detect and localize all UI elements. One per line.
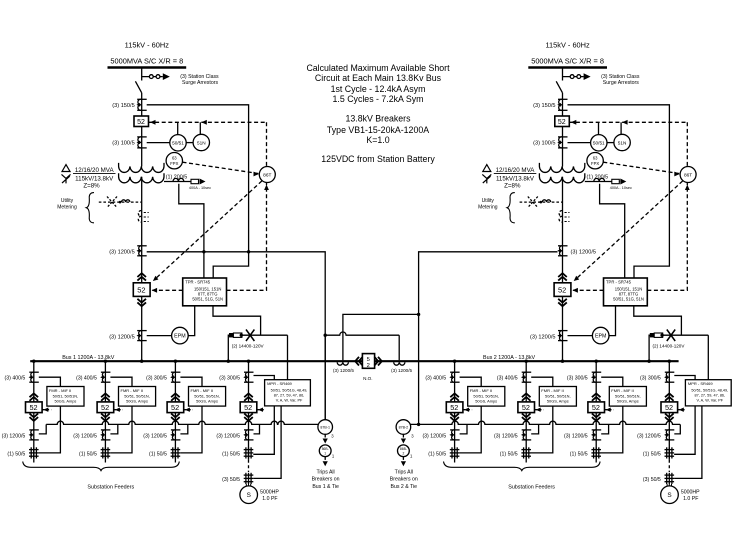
wire: CT 100/5 to relay 50/51 (bus 1 side) xyxy=(147,142,170,144)
drawout chevrons above 52 feeder F1 (bus 1) xyxy=(30,393,39,400)
svg-text:MPR - SR469: MPR - SR469 xyxy=(267,381,292,386)
CT (3) 1200/5 feeder F3 (bus 2) xyxy=(592,429,602,431)
relay 50/51 (bus 1 side) xyxy=(170,135,186,151)
dashed trip TPR to main 52 (bus 1 side) xyxy=(150,289,183,291)
svg-text:S: S xyxy=(667,492,671,499)
CT (3) 1200/5 main (bus 1 side) xyxy=(137,245,147,247)
svg-text:EPM: EPM xyxy=(174,334,185,340)
svg-text:Type VB1-15-20kA-1200A: Type VB1-15-20kA-1200A xyxy=(327,125,429,135)
label 86B-2 xyxy=(400,447,407,455)
junction dot PT (bus 2 side) xyxy=(660,334,663,337)
svg-text:(3) 400/5: (3) 400/5 xyxy=(497,376,518,382)
svg-text:Z=8%: Z=8% xyxy=(504,182,521,189)
svg-text:50/51, 51G, 51N: 50/51, 51G, 51N xyxy=(613,296,644,301)
svg-text:(2) 14400-120V: (2) 14400-120V xyxy=(653,343,686,348)
svg-text:(1) 50/5: (1) 50/5 xyxy=(79,451,97,457)
CT (1) 50/5 feeder F3 (bus 2) xyxy=(593,447,595,458)
wire: TPR to bus PT circuit (bus 2 side) xyxy=(634,306,682,335)
svg-text:(3) 100/5: (3) 100/5 xyxy=(112,140,134,146)
wire: MPR to CT 50/5 motor feeder bus 2 xyxy=(674,406,695,454)
PT fuse (bus 2 side) xyxy=(667,330,675,342)
wire: PT branch (bus 2 side) xyxy=(649,335,708,361)
trip arrow into 52 feeder F1 (bus 1) xyxy=(43,408,48,412)
trip arrow into 86T bottom (bus 1 side) xyxy=(264,185,269,191)
CT (1) 50/5 feeder F1 (bus 2) xyxy=(451,447,453,458)
wire: motor feeder vertical xyxy=(668,361,670,460)
svg-text:Metering: Metering xyxy=(57,204,77,210)
junction dot PT leg on bus 2 xyxy=(647,360,650,363)
svg-text:Substation Feeders: Substation Feeders xyxy=(87,485,134,491)
label FMR relay functions feeder F1 (bus 1) xyxy=(49,388,78,403)
breaker 52 motor feeder bus 2 xyxy=(661,402,678,413)
wire: FMR to ground CT feeder F3 (bus 2) xyxy=(601,406,623,453)
svg-text:5000HP: 5000HP xyxy=(260,489,279,495)
junction dot feeder F1 (bus 2) on bus xyxy=(453,360,456,363)
neutral resistor box (bus 2 side) xyxy=(612,179,620,183)
svg-text:(1) 50/5: (1) 50/5 xyxy=(428,451,446,457)
CT (3) 300/5 feeder F3 (bus 2) xyxy=(592,371,602,373)
svg-text:MPR - SR469: MPR - SR469 xyxy=(688,381,713,386)
relay FMR MIF II box feeder F3 (bus 2) xyxy=(609,387,646,407)
label Station Class Surge Arrestors (bus 2 side) xyxy=(601,74,640,86)
dashed wire 63 FPX to 86T (bus 2 side) xyxy=(603,162,680,173)
arrow 87B-1 to 86B-1 xyxy=(324,434,326,437)
CT (3) 400/5 feeder F1 (bus 1) xyxy=(29,371,39,373)
svg-text:(3) 300/5: (3) 300/5 xyxy=(219,376,240,382)
metering meter symbol (bus 1 side) xyxy=(122,200,130,202)
trip arrow into 86T bottom (bus 2 side) xyxy=(685,185,690,191)
svg-text:12/16/20 MVA: 12/16/20 MVA xyxy=(75,167,115,174)
svg-text:Utility: Utility xyxy=(482,198,495,204)
utility source bus bar (bus 2 side) xyxy=(528,66,607,68)
svg-text:50GS, Amps: 50GS, Amps xyxy=(54,398,76,403)
wire: 13.8kV main vertical (bus 2 side) xyxy=(562,177,564,361)
drawout chevrons left of tie 52 xyxy=(355,357,362,366)
svg-text:87B-2: 87B-2 xyxy=(399,426,409,430)
svg-text:(3) Station Class: (3) Station Class xyxy=(180,74,219,80)
drawout chevrons above main 52 (bus 2 side) xyxy=(558,273,567,280)
trip arrow into main 52 side (bus 2 side) xyxy=(572,288,578,293)
wire: motor leads bus 1 xyxy=(246,484,250,486)
label FMR relay functions feeder F3 (bus 2) xyxy=(611,388,640,403)
svg-text:K=1.0: K=1.0 xyxy=(366,135,389,145)
svg-text:(3) 50/5: (3) 50/5 xyxy=(222,477,240,483)
lockout relay 86B-2 circle xyxy=(398,445,410,457)
wire: transformer neutral CT branch (bus 1 side) xyxy=(164,181,199,183)
svg-text:(3) 400/5: (3) 400/5 xyxy=(5,376,26,382)
CT (3) 1200/5 main (bus 2 side) xyxy=(558,245,568,247)
wire: motor leads bus 2 xyxy=(667,484,671,486)
svg-text:86T: 86T xyxy=(684,172,692,178)
trip arrow into 52 115kV (bus 1 side) xyxy=(150,120,156,125)
dashed trip 86T to main 52 diagonal (bus 1 side) xyxy=(155,181,262,279)
svg-text:(3) 1200/5: (3) 1200/5 xyxy=(2,433,26,439)
CT (1) 50/5 feeder F2 (bus 2) xyxy=(523,447,525,458)
wire: FMR to ground CT feeder F2 (bus 1) xyxy=(110,406,132,453)
main secondary breaker 52 (bus 1 side) xyxy=(133,283,150,297)
svg-text:(3) 1200/5: (3) 1200/5 xyxy=(109,334,135,340)
wire: surge arrester tap (bus 1 side) xyxy=(142,76,163,78)
drawout chevrons above 52 motor feeder bus 1 xyxy=(244,393,253,400)
wire: MPR to CT (3)50/5 motor feeder bus 2 xyxy=(674,406,702,479)
wire: surge arrester tap (bus 2 side) xyxy=(563,76,584,78)
CT (3) 300/5 motor feeder bus 1 xyxy=(244,371,254,373)
wire: CT (3) 300/5 secondary to FMR feeder F3 (bus 2) xyxy=(601,377,623,386)
svg-text:(2) 14400-120V: (2) 14400-120V xyxy=(232,343,265,348)
trip arrow into main 52 top (bus 2 side) xyxy=(574,276,580,281)
svg-text:50GS, Amps: 50GS, Amps xyxy=(617,398,639,403)
dashed cable run motor feeder bus 1 xyxy=(248,460,250,472)
dashed trip TPR to 86T (bus 1 side) xyxy=(227,183,267,291)
svg-text:87, 27, 59, 47, 86,: 87, 27, 59, 47, 86, xyxy=(694,394,725,398)
wire: CT (3) 400/5 secondary to FMR feeder F2 (bus 1) xyxy=(110,377,132,386)
delta winding symbol (bus 2 side) xyxy=(483,165,491,172)
svg-text:52: 52 xyxy=(558,119,566,126)
wire: source drop (bus 2 side) xyxy=(562,68,564,81)
utility source bus bar (bus 1 side) xyxy=(108,66,187,68)
surge arrester drawout stabs (bus 1 side) xyxy=(149,75,160,79)
breaker 52 115kV (bus 1 side) xyxy=(134,116,149,127)
CT (1) 50/5 feeder F3 (bus 1) xyxy=(172,447,174,458)
CT (1) 50/5 motor feeder bus 2 xyxy=(666,447,668,458)
breaker 52 feeder F3 (bus 2) xyxy=(588,402,605,413)
svg-text:V, A, W, Var, PF: V, A, W, Var, PF xyxy=(276,399,303,403)
wire: CT 1200/5 secondary to 87B-2 (bus 2 side) xyxy=(419,252,558,425)
label FMR relay functions feeder F2 (bus 2) xyxy=(541,388,570,403)
relay 51N (bus 2 side) xyxy=(614,134,630,150)
wire: CT 1200/5 riser to 87B wire feeder F1 (bus 1) xyxy=(39,424,46,434)
trip arrow into 52 115kV (bus 2 side) xyxy=(571,120,577,125)
label TPR relay functions (bus 2 side) xyxy=(606,280,644,302)
svg-text:(3) 1200/5: (3) 1200/5 xyxy=(216,433,240,439)
wire: CT 300/5 secondary to MPR bus 1 xyxy=(254,376,275,380)
wire: source drop (bus 1 side) xyxy=(141,68,143,81)
label Utility Metering (bus 2 side) xyxy=(478,198,498,210)
wire: TPR to bus PT circuit (bus 1 side) xyxy=(213,306,261,335)
CT (3) 100/5 (bus 2 side) xyxy=(558,136,568,138)
utility metering brace (bus 1 side) xyxy=(86,193,94,223)
wire: CT 300/5 secondary to MPR bus 2 xyxy=(674,376,695,380)
dashed trip FMR to 52 feeder F1 (bus 2) xyxy=(463,409,472,411)
junction dot TPR wire B (bus 1) xyxy=(247,250,250,253)
CT (3) 300/5 feeder F3 (bus 1) xyxy=(171,371,181,373)
relay MPR SR469 box bus 1 xyxy=(265,380,311,406)
svg-text:Surge Arrestors: Surge Arrestors xyxy=(603,80,639,86)
relay 50/51 (bus 2 side) xyxy=(591,135,607,151)
breaker 52 feeder F1 (bus 2) xyxy=(446,402,463,413)
CT (3) 1200/5 motor feeder bus 2 xyxy=(665,429,675,431)
wire: CT (3) 400/5 secondary to FMR feeder F1 (bus 2) xyxy=(460,377,482,386)
CT (3) 400/5 feeder F1 (bus 2) xyxy=(450,371,460,373)
svg-text:(3) 1200/5: (3) 1200/5 xyxy=(571,250,597,256)
svg-text:87, 27, 59, 47, 86,: 87, 27, 59, 47, 86, xyxy=(274,394,305,398)
svg-text:2: 2 xyxy=(367,363,370,369)
CT (3) 150/5 (bus 2 side) xyxy=(558,98,568,100)
tie breaker 52 box xyxy=(362,354,374,369)
CT (3) 1200/5 feeder F2 (bus 2) xyxy=(522,429,532,431)
junction dot TPR wire A (bus 1) xyxy=(202,250,205,253)
wire: CT (3) 400/5 secondary to FMR feeder F2 (bus 2) xyxy=(531,377,553,386)
svg-text:FPX: FPX xyxy=(591,161,599,166)
wire: relay 50/51 to 51N (bus 1 side) xyxy=(186,142,193,144)
svg-text:(3) 1200/5: (3) 1200/5 xyxy=(637,433,661,439)
arrow 86B-1 trip xyxy=(324,457,326,460)
junction dot main on bus 2 xyxy=(561,360,564,363)
relay TPR SR745 box (bus 1 side) xyxy=(183,278,227,306)
drawout chevrons right of tie 52 xyxy=(374,357,381,366)
svg-text:52: 52 xyxy=(171,403,179,412)
svg-text:Substation Feeders: Substation Feeders xyxy=(508,485,555,491)
wire: PT right leg to MPR relay (bus 2 side) xyxy=(707,335,709,380)
surge arrester drawout stabs (bus 2 side) xyxy=(570,75,581,79)
svg-text:(3) 1200/5: (3) 1200/5 xyxy=(109,250,135,256)
lockout relay 86T (bus 1 side) xyxy=(259,167,275,183)
label Utility Metering (bus 1 side) xyxy=(57,198,77,210)
svg-text:(3) 300/5: (3) 300/5 xyxy=(640,376,661,382)
PT drawout symbol (bus 1 side) xyxy=(229,333,233,337)
CT (1) 200/5 (bus 1 side) xyxy=(173,178,184,181)
svg-text:N.O.: N.O. xyxy=(363,376,372,381)
label 52 tie breaker xyxy=(367,357,370,369)
label transformer rating (bus 2 side) xyxy=(494,167,537,189)
trip arrow into 52 feeder F2 (bus 2) xyxy=(536,408,541,412)
transformer T2 primary winding xyxy=(539,163,584,173)
label Trips All Breakers bus 2 xyxy=(390,469,418,489)
relay FMR MIF II box feeder F2 (bus 2) xyxy=(539,387,576,407)
CT (3) 150/5 (bus 1 side) xyxy=(137,98,147,100)
metering meter symbol (bus 2 side) xyxy=(542,200,550,202)
metering PT fuse X (bus 1 side) xyxy=(107,197,117,208)
label FMR relay functions feeder F3 (bus 1) xyxy=(191,388,220,403)
svg-text:EPM: EPM xyxy=(595,334,606,340)
drawout chevrons above 52 feeder F1 (bus 2) xyxy=(450,393,459,400)
wire: CT 1200/5 riser to 87B wire feeder F2 (bus 1) xyxy=(110,424,117,434)
wire: MPR to CT (3)50/5 motor feeder bus 1 xyxy=(253,406,281,479)
svg-text:87B-1: 87B-1 xyxy=(320,426,330,430)
svg-text:50/51, 50/51G, 48,49,: 50/51, 50/51G, 48,49, xyxy=(691,389,728,393)
drawout chevrons above 52 motor feeder bus 2 xyxy=(665,393,674,400)
svg-text:(3) 400/5: (3) 400/5 xyxy=(76,376,97,382)
drawout chevrons below 52 feeder F1 (bus 2) xyxy=(450,414,459,421)
dashed trip wire 52-115kV to 86T (bus 1 side) xyxy=(149,121,267,123)
wire: CT 1200/5 riser to 87B wire feeder F1 (bus 2) xyxy=(460,424,467,434)
svg-text:52: 52 xyxy=(522,403,530,412)
label FMR relay functions feeder F2 (bus 1) xyxy=(121,388,150,403)
drawout chevrons below 52 feeder F3 (bus 2) xyxy=(592,414,601,421)
trip arrow mid (bus 1 side) xyxy=(201,120,207,125)
trip arrow into main 52 top (bus 1 side) xyxy=(153,276,159,281)
bus 1 13.8kV bar xyxy=(30,360,362,362)
wire: CT 100/5 to relay 50/51 (bus 2 side) xyxy=(568,142,591,144)
dashed trip wire 52-115kV to 86T (bus 2 side) xyxy=(569,121,687,123)
svg-text:(1) 50/5: (1) 50/5 xyxy=(7,451,25,457)
CT (3) 50/5 motor feeder bus 1 xyxy=(245,473,247,484)
svg-text:(3) 400/5: (3) 400/5 xyxy=(425,376,446,382)
label Trips All Breakers bus 1 xyxy=(312,469,340,489)
meter EPM (bus 1 side) xyxy=(172,327,189,344)
trip arrow into 86T from FPX (bus 1 side) xyxy=(254,172,260,177)
svg-text:Circuit at Each Main 13.8Kv Bu: Circuit at Each Main 13.8Kv Bus xyxy=(315,73,442,83)
svg-text:(1) 50/5: (1) 50/5 xyxy=(570,451,588,457)
svg-text:(1) 50/5: (1) 50/5 xyxy=(222,451,240,457)
wire: FMR to ground CT feeder F2 (bus 2) xyxy=(531,406,553,453)
drawout chevrons below 52 feeder F3 (bus 1) xyxy=(171,414,180,421)
svg-text:Trips All: Trips All xyxy=(395,469,413,475)
svg-text:12/16/20 MVA: 12/16/20 MVA xyxy=(496,167,536,174)
label motor rating bus 2 xyxy=(681,489,700,502)
svg-text:50/51, 50/51G, 48,49,: 50/51, 50/51G, 48,49, xyxy=(271,389,308,393)
CT (1) 200/5 (bus 2 side) xyxy=(594,178,605,181)
svg-text:1st Cycle - 12.4kA Asym: 1st Cycle - 12.4kA Asym xyxy=(331,84,426,94)
CT (3) 1200/5 metering (bus 2 side) xyxy=(558,330,568,332)
svg-text:51N: 51N xyxy=(618,140,627,145)
junction dot PT leg on bus 1 xyxy=(227,360,230,363)
svg-text:50/51: 50/51 xyxy=(593,141,605,146)
svg-text:(3) 1200/5: (3) 1200/5 xyxy=(143,433,167,439)
CT (3) 1200/5 motor feeder bus 1 xyxy=(244,429,254,431)
svg-text:(3) 1200/5: (3) 1200/5 xyxy=(333,368,354,373)
CT (1) 50/5 feeder F2 (bus 1) xyxy=(102,447,104,458)
svg-text:(3) 150/5: (3) 150/5 xyxy=(533,103,555,109)
CT (1) 50/5 feeder F1 (bus 1) xyxy=(30,447,32,458)
wire: motor feeder vertical xyxy=(248,361,250,460)
label 86B-1 xyxy=(322,447,329,455)
drawout chevrons below main 52 (bus 2 side) xyxy=(558,299,567,306)
wire: CT 150/5 secondary to TPR relay (bus 1 side) xyxy=(147,105,249,278)
substation feeders brace bus 1 xyxy=(23,462,180,471)
transformer T2 secondary winding xyxy=(539,173,584,183)
svg-text:52: 52 xyxy=(137,286,145,295)
svg-text:115kV - 60Hz: 115kV - 60Hz xyxy=(545,41,590,50)
svg-text:5: 5 xyxy=(367,357,370,363)
wire: relay 51N stub up (bus 2 side) xyxy=(620,122,622,134)
svg-text:TPR - SR745: TPR - SR745 xyxy=(606,280,632,285)
relay 51N (bus 1 side) xyxy=(193,134,209,150)
wire: CT 200/5 secondary to TPR (bus 1 side) xyxy=(179,184,204,278)
dashed trip FMR to 52 feeder F2 (bus 1) xyxy=(114,409,123,411)
svg-text:(3) 100/5: (3) 100/5 xyxy=(533,140,555,146)
trip arrow into 52 feeder F3 (bus 2) xyxy=(606,408,611,412)
wire: 13.8kV main vertical (bus 1 side) xyxy=(141,177,143,361)
label MPR relay functions bus 1 xyxy=(267,381,307,402)
disconnect switch (bus 1 side) xyxy=(135,81,141,93)
svg-text:50GS, Amps: 50GS, Amps xyxy=(475,398,497,403)
drawout chevrons above 52 feeder F2 (bus 1) xyxy=(101,393,110,400)
relay 87B-1 circle xyxy=(318,420,333,435)
arrow 400A-10sec (bus 2 side) xyxy=(620,179,626,185)
svg-text:(3) 150/5: (3) 150/5 xyxy=(112,103,134,109)
svg-text:Trips All: Trips All xyxy=(316,469,334,475)
wire: CT 1200/5 riser to 87B wire motor feeder bus 2 xyxy=(674,424,680,434)
CT (3) 1200/5 feeder F1 (bus 2) xyxy=(450,429,460,431)
trip arrow into 52 motor feeder bus 2 xyxy=(679,408,684,412)
svg-text:52: 52 xyxy=(558,286,566,295)
surge arrester symbol arrow (bus 1 side) xyxy=(163,73,170,80)
label TPR relay functions (bus 1 side) xyxy=(185,280,223,302)
trip arrow into 52 feeder F3 (bus 1) xyxy=(185,408,190,412)
label Station Class Surge Arrestors (bus 1 side) xyxy=(180,74,219,86)
CT (3) 100/5 (bus 1 side) xyxy=(137,136,147,138)
junction dot motor feeder bus 2 xyxy=(668,360,671,363)
junction dot feeder F3 (bus 2) on bus xyxy=(595,360,598,363)
svg-text:TPR - SR745: TPR - SR745 xyxy=(185,280,211,285)
transformer T1 secondary winding xyxy=(119,173,164,183)
lockout wire 87B-1 top xyxy=(324,335,326,420)
svg-text:5000MVA S/C X/R = 8: 5000MVA S/C X/R = 8 xyxy=(110,57,183,66)
svg-text:52: 52 xyxy=(592,403,600,412)
svg-text:1.0 PF: 1.0 PF xyxy=(683,496,698,502)
junction dot feeder F1 (bus 1) on bus xyxy=(32,360,35,363)
wire: CT (3) 300/5 secondary to FMR feeder F3 (bus 1) xyxy=(180,377,202,386)
svg-text:(3) 1200/5: (3) 1200/5 xyxy=(530,334,556,340)
svg-text:Bus 2 & Tie: Bus 2 & Tie xyxy=(391,484,418,490)
svg-text:50GS, Amps: 50GS, Amps xyxy=(126,398,148,403)
junction dot main on bus 1 xyxy=(140,360,143,363)
label 63 FPX (bus 1 side) xyxy=(170,156,178,166)
label MPR relay functions bus 2 xyxy=(688,381,728,402)
relay FMR MIF II box feeder F1 (bus 1) xyxy=(47,387,84,407)
junction dot tie CT wire (bus 2) xyxy=(417,313,420,316)
svg-text:Calculated Maximum Available S: Calculated Maximum Available Short xyxy=(306,63,450,73)
dashed wire down to 86T top (bus 1 side) xyxy=(266,122,268,166)
arrow 400A-10sec (bus 1 side) xyxy=(200,179,206,185)
wire: relay 50/51 stub up (bus 1 side) xyxy=(177,122,179,134)
svg-text:1.0 PF: 1.0 PF xyxy=(262,496,277,502)
CT (1) 50/5 motor feeder bus 1 xyxy=(245,447,247,458)
svg-text:Bus 2 1200A - 13.8kV: Bus 2 1200A - 13.8kV xyxy=(483,355,536,361)
wire: tie right CT horizontal to 87B-1 wire xyxy=(325,332,399,335)
wire: relay 50/51 to 51N (bus 2 side) xyxy=(607,142,614,144)
relay 87B-2 circle xyxy=(396,420,411,435)
svg-text:(3) 1200/5: (3) 1200/5 xyxy=(564,433,588,439)
svg-text:5000HP: 5000HP xyxy=(681,489,700,495)
arrow 87B-2 to 86B-2 xyxy=(402,434,404,437)
CT (3) 1200/5 tie left xyxy=(337,362,348,365)
drawout chevrons below 52 feeder F2 (bus 1) xyxy=(101,414,110,421)
dashed trip FMR to 52 feeder F2 (bus 2) xyxy=(535,409,544,411)
main secondary breaker 52 (bus 2 side) xyxy=(554,283,571,297)
drawout chevrons above 52 feeder F2 (bus 2) xyxy=(522,393,531,400)
svg-text:52: 52 xyxy=(244,403,252,412)
CT (3) 400/5 feeder F2 (bus 2) xyxy=(522,371,532,373)
PT fuse (bus 1 side) xyxy=(246,330,254,342)
metering CT on main (bus 2 side) xyxy=(559,211,562,223)
svg-text:Bus 1 1200A - 13.8kV: Bus 1 1200A - 13.8kV xyxy=(62,355,115,361)
junction dot tie CT wire (bus 1) xyxy=(324,334,327,337)
junction dot motor feeder bus 1 xyxy=(247,360,250,363)
wire: CT 1200/5 secondary to 87B-1 (bus 1 side) xyxy=(147,252,326,420)
relay FMR MIF II box feeder F3 (bus 1) xyxy=(189,387,226,407)
dashed wire 63 FPX to 86T (bus 1 side) xyxy=(183,162,260,173)
wire: 115kV main vertical (bus 1 side) xyxy=(141,93,143,167)
motor M2 circle xyxy=(661,486,679,504)
wire: 87B-2 differential line xyxy=(410,421,680,424)
trip arrow into main 52 side (bus 1 side) xyxy=(152,288,158,293)
drawout chevrons below main 52 (bus 1 side) xyxy=(137,299,146,306)
junction dot 87B-2 wire (bus 2) xyxy=(417,423,420,426)
svg-text:FPX: FPX xyxy=(170,161,178,166)
wire: 87B-1 differential line xyxy=(46,421,318,424)
metering CT on main (bus 1 side) xyxy=(138,211,141,223)
svg-text:(3) 1200/5: (3) 1200/5 xyxy=(494,433,518,439)
svg-text:400A - 10sec: 400A - 10sec xyxy=(189,186,211,190)
svg-text:Bus 1 & Tie: Bus 1 & Tie xyxy=(312,484,339,490)
dashed trip TPR to main 52 (bus 2 side) xyxy=(571,289,604,291)
wire: FMR to ground CT feeder F3 (bus 1) xyxy=(180,406,202,453)
svg-text:Breakers on: Breakers on xyxy=(312,477,340,483)
wire: feeder F3 (bus 2) vertical xyxy=(595,361,597,462)
lockout relay 86T (bus 2 side) xyxy=(680,167,696,183)
